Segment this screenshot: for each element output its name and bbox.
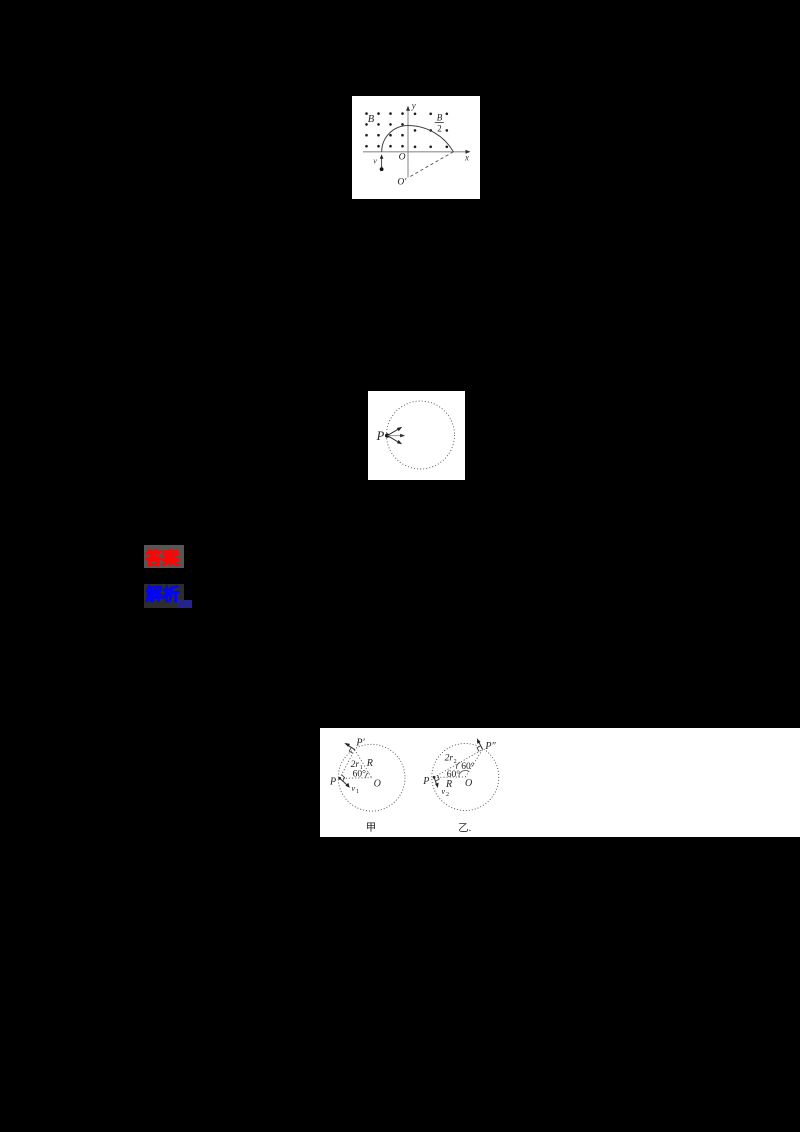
svg-text:P: P xyxy=(422,776,429,787)
dashed radius P' to O (R) xyxy=(355,750,372,778)
svg-text:P: P xyxy=(329,777,336,788)
right angle square at P right xyxy=(436,775,440,781)
dashed chord P to P' (2r1) xyxy=(340,750,355,779)
svg-text:y: y xyxy=(411,100,416,110)
y axis xyxy=(407,109,409,178)
svg-text:2: 2 xyxy=(446,792,449,798)
figure 3: two dotted circles (jia and yi) with chords and angles xyxy=(320,728,800,837)
svg-text:乙: 乙 xyxy=(458,822,469,834)
angle arc at O xyxy=(366,773,369,778)
svg-text:1: 1 xyxy=(356,789,359,795)
field dots region B/2 (right sparse grid) xyxy=(414,113,448,149)
dashed line P to O xyxy=(434,776,465,778)
right angle square at P' xyxy=(349,747,353,753)
arrow up-right xyxy=(387,428,400,435)
exit velocity arrow at P' xyxy=(346,744,354,749)
left dotted circle xyxy=(338,744,405,811)
dashed chord P to P'' (2r2) xyxy=(434,749,483,777)
svg-text:v: v xyxy=(441,786,445,796)
svg-text:O: O xyxy=(399,153,406,163)
svg-text:B: B xyxy=(437,113,443,123)
dashed radius O to P'' xyxy=(465,749,482,777)
svg-text:R: R xyxy=(366,758,373,769)
exit velocity arrow at P'' xyxy=(478,741,483,750)
dashed radius from landing point to O' xyxy=(409,152,453,177)
svg-text:B: B xyxy=(368,114,375,125)
svg-text:v: v xyxy=(373,157,377,166)
svg-text:2r: 2r xyxy=(445,754,454,764)
arrow down-right xyxy=(387,436,399,443)
dark navy block xyxy=(177,600,192,608)
small angle arc on chord xyxy=(457,762,461,769)
svg-text:.: . xyxy=(469,823,472,834)
dotted circle boundary xyxy=(387,401,455,469)
svg-text:P: P xyxy=(376,429,385,443)
svg-text:v: v xyxy=(351,783,355,793)
point P right xyxy=(433,776,436,779)
field dots region B (left dense grid) xyxy=(365,112,404,147)
figure 1: particle in magnetic field B / B/2 with x-y axes xyxy=(352,96,480,199)
svg-text:2: 2 xyxy=(454,759,457,765)
svg-text:R: R xyxy=(445,779,452,790)
svg-text:60°: 60° xyxy=(461,761,475,772)
svg-text:P″: P″ xyxy=(484,741,496,752)
entry particle dot xyxy=(380,167,384,171)
figure 2: dotted circle with point P and three velocity arrows xyxy=(368,391,465,480)
right angle square at P'' xyxy=(477,746,481,752)
svg-text:O′: O′ xyxy=(397,178,407,188)
right dotted circle xyxy=(432,744,499,811)
point P xyxy=(385,433,389,437)
entry velocity arrow v xyxy=(381,157,383,168)
svg-text:x: x xyxy=(464,153,469,163)
svg-text:60°: 60° xyxy=(353,769,367,780)
svg-text:O: O xyxy=(374,779,381,790)
arrow horizontal (lighter) xyxy=(387,435,401,437)
velocity arrow v1 at P xyxy=(340,778,348,785)
x axis xyxy=(363,151,468,153)
svg-text:2: 2 xyxy=(437,123,442,133)
particle trajectory: left arc radius r, right arc radius 2r xyxy=(382,125,454,151)
svg-text:O: O xyxy=(465,778,472,789)
answer label (red highlighted) xyxy=(144,545,184,569)
right angle square at P xyxy=(342,775,345,782)
svg-text:2r: 2r xyxy=(351,760,360,770)
analysis label (blue highlighted) xyxy=(144,584,184,608)
point P left xyxy=(338,777,341,780)
svg-text:甲: 甲 xyxy=(366,822,377,833)
dashed line P to O xyxy=(340,777,372,780)
svg-text:P′: P′ xyxy=(355,737,365,748)
angle arc at O right xyxy=(459,770,469,777)
velocity arrow v2 at P xyxy=(434,777,437,785)
